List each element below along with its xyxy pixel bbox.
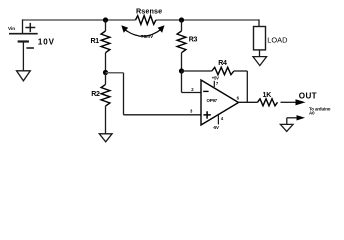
wire: node to R4 left — [182, 70, 212, 72]
svg-text:1K: 1K — [263, 92, 272, 99]
resistor Rsense — [136, 6, 163, 24]
svg-text:R4: R4 — [218, 60, 227, 67]
wire: op-amp output — [238, 101, 258, 103]
wire: battery positive lead — [22, 19, 24, 33]
svg-text:4: 4 — [221, 116, 224, 121]
svg-text:R2: R2 — [91, 91, 100, 98]
ground (LOAD) — [253, 57, 267, 66]
wire: rail drop to LOAD — [258, 19, 260, 26]
node: junction dot R3/R4/pin2 — [179, 68, 184, 73]
wire: node down to pin2 level — [181, 71, 183, 93]
svg-text:+5V: +5V — [212, 76, 219, 81]
svg-text:6: 6 — [237, 96, 240, 101]
wire: down to arduino ground — [286, 118, 288, 125]
wire: battery negative lead to ground — [22, 42, 24, 71]
svg-text:A0: A0 — [309, 110, 315, 115]
node: junction dot rail/R3 — [179, 17, 184, 22]
node: junction dot rail/R1 — [103, 17, 108, 22]
ground (arduino) — [280, 124, 293, 131]
load LD1 — [254, 27, 288, 50]
pin 6 label — [237, 96, 240, 101]
ground (battery) — [17, 71, 31, 81]
svg-text:R1: R1 — [91, 38, 100, 45]
svg-text:~78mV: ~78mV — [138, 34, 153, 39]
measurement arrows ~78mV across Rsense — [121, 25, 164, 39]
op-amp U1 OP97 — [201, 80, 239, 125]
svg-text:OUT: OUT — [299, 91, 317, 100]
wire: R1 bottom lead — [105, 53, 107, 73]
pin 4 lead and -5V supply — [213, 115, 224, 130]
pin 3 label — [190, 108, 193, 113]
svg-text:R3: R3 — [189, 36, 198, 43]
wire: R3 bottom lead — [181, 53, 183, 71]
svg-text:-5V: -5V — [213, 125, 219, 130]
svg-text:LOAD: LOAD — [267, 35, 287, 44]
wire: R1 top lead — [105, 20, 107, 31]
wire: node to corner (gray) — [106, 72, 124, 74]
wire: to op-amp pin 2 — [182, 92, 202, 94]
node arduino ground return (arrow) — [297, 115, 306, 120]
wire: corner down to pin3 level — [123, 73, 125, 115]
wire: top rail left segment (Vin+ to Rsense left) — [23, 19, 136, 21]
svg-text:Vin: Vin — [8, 26, 15, 31]
svg-text:7: 7 — [216, 81, 219, 86]
node OUT (arrow + label) — [296, 91, 317, 105]
svg-text:10V: 10V — [38, 38, 55, 47]
wire: top rail right segment (Rsense right to LOAD drop) — [156, 19, 259, 21]
svg-text:2: 2 — [191, 87, 194, 92]
svg-text:3: 3 — [190, 108, 193, 113]
wire: LOAD bottom lead — [259, 50, 261, 57]
battery V1 Vin 10V — [8, 23, 55, 48]
svg-text:OP97: OP97 — [207, 98, 218, 103]
resistor R5 1K — [258, 92, 278, 106]
wire: feedback down to output — [246, 71, 248, 102]
resistor R2 — [91, 84, 110, 106]
svg-text:Rsense: Rsense — [136, 6, 162, 15]
wire: R2 top lead — [105, 73, 107, 85]
resistor R3 — [177, 31, 197, 53]
wire: 1K to OUT arrow — [281, 101, 297, 103]
pin 7 lead and +5V supply — [212, 76, 219, 87]
label: To arduino A0 — [309, 106, 331, 115]
node: junction dot R1/R2/opamp+ — [103, 70, 108, 75]
wire: to op-amp pin 3 — [124, 114, 202, 116]
resistor R4 — [212, 60, 234, 75]
wire: R4 right lead to feedback corner — [234, 70, 247, 72]
wire: R2 bottom lead — [105, 106, 107, 134]
pin 2 label — [191, 87, 194, 92]
ground (R2) — [99, 134, 112, 142]
wire: R3 top lead — [181, 20, 183, 31]
resistor R1 — [91, 31, 110, 53]
wire: arduino ground wire — [287, 117, 297, 119]
